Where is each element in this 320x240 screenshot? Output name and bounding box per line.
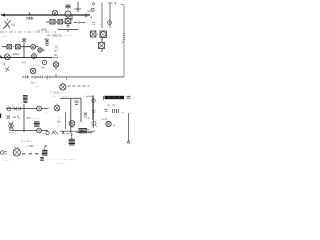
loop coil ticks (122, 34, 125, 44)
svg-text:— —— · —: — —— · — (55, 163, 69, 166)
long wire y77 (52, 76, 124, 78)
phono jack left (0, 151, 7, 155)
label small row (46, 55, 52, 58)
tube V1 grid cap (52, 10, 57, 15)
pilot lamp L1 (69, 121, 75, 127)
svg-text:2·: 2· (88, 116, 91, 120)
tube V4 socket (53, 61, 58, 71)
label left edge (0, 114, 2, 119)
value column 220 (54, 45, 58, 58)
switch row (43, 130, 93, 136)
label 7A8 under bus (26, 17, 34, 21)
svg-text:· · · ·: · · · · (46, 55, 52, 58)
field coil hatched (78, 129, 87, 133)
rung 1 wire (6, 108, 49, 110)
svg-text:·– ·: ·– · (45, 111, 49, 114)
socket marks on column (92, 99, 97, 127)
wire rung y47 (1, 44, 31, 47)
plug P1 (106, 121, 116, 127)
dashed wire bottom (22, 153, 45, 155)
capacitor C11 (99, 38, 105, 53)
speaker box (102, 3, 113, 29)
output transformer left wire (70, 98, 72, 133)
grid resistor zigzag (13, 54, 19, 55)
svg-text:·–2·4(··: ·–2·4(·· (100, 117, 109, 121)
marks left of V6 (45, 111, 49, 114)
svg-text:14: 14 (11, 23, 15, 27)
value label 140 (11, 23, 15, 27)
B+ lead wire (127, 113, 130, 143)
capacitor C1 trimmer with arrow (3, 20, 11, 30)
osc coil starburst (22, 38, 26, 44)
svg-text:·—·: ·—· (2, 34, 7, 38)
svg-text:·· · ·· · · ·· · ·· — ·· —··–: ·· · ·· · · ·· · ·· — ·· —··– (46, 158, 76, 162)
svg-text:·4·5: ·4·5 (21, 61, 26, 65)
electrolytic C14 text (57, 115, 62, 128)
capacitor C4 (13, 45, 21, 49)
output transformer right wire (80, 98, 82, 122)
hatched resistor block (34, 122, 40, 126)
voice coil cluster (84, 113, 90, 121)
output label bold bar (104, 96, 125, 100)
label left A (2, 34, 7, 38)
capacitor C10 (100, 31, 107, 38)
row2 marks (7, 116, 41, 121)
svg-text:5C: 5C (54, 53, 58, 57)
text tone control (50, 91, 66, 99)
wire segment AVC y22.5 (74, 21, 86, 24)
electrolytic C8 (42, 60, 47, 69)
speaker frame right (86, 96, 93, 121)
rectifier column wire (93, 96, 95, 129)
ladder wire x24 (23, 104, 25, 132)
text row (100, 117, 109, 121)
svg-text:4?K· ·–· ·—: 4?K· ·–· ·— (26, 116, 40, 120)
trimmer C12 (30, 68, 35, 74)
svg-text:··: ·· (131, 142, 133, 145)
lamp starburst (65, 4, 71, 10)
dashed wire right of tube (68, 85, 90, 87)
wire row under bus (46, 21, 65, 23)
svg-text:—–: —– (35, 85, 40, 89)
phono motor M1 (13, 147, 20, 157)
svg-text:·—·: ·—· (69, 135, 73, 138)
rung 2 wire (10, 130, 48, 132)
antenna lead wire (121, 4, 124, 77)
text rows above bottom row (21, 140, 35, 149)
text AC-DC 117V (107, 104, 119, 108)
resistor R1 (58, 20, 63, 25)
svg-text:–·+·5Ω·: –·+·5Ω· (25, 144, 34, 148)
label 45 under bus (21, 61, 26, 65)
label under (69, 135, 73, 138)
AVC label marks (85, 3, 96, 25)
tube V2 socket circle (65, 11, 71, 17)
svg-text:4μ+: 4μ+ (57, 120, 62, 124)
fuse block (42, 145, 47, 155)
rectifier boxes right: C9 (91, 31, 99, 37)
filter choke core top (23, 96, 28, 103)
svg-text:Ω?: Ω? (54, 49, 58, 53)
coupling caps row y77 (22, 76, 52, 79)
svg-text:·.: ·. (127, 3, 129, 6)
equals marks right of bar (127, 96, 135, 100)
svg-text:4? ·455 KC· —· ·–·: 4? ·455 KC· —· ·–· (47, 34, 73, 38)
resistor R4 circle (37, 128, 42, 133)
svg-text:··–: ··– (121, 110, 125, 114)
svg-text:— 4?5: — 4?5 (37, 28, 47, 32)
IF transformer T1 (65, 17, 71, 27)
capacitor C2 (50, 20, 55, 25)
svg-text:+: + (97, 33, 99, 37)
tube V6 output (54, 104, 60, 111)
capacitor C15 plates (75, 101, 79, 104)
trimmer C6 (32, 54, 37, 59)
tube V3 triode (1, 54, 11, 60)
svg-text:4?· ?C–··: 4?· ?C–·· (107, 104, 119, 108)
label 50L6 row (127, 3, 129, 6)
text above tube (31, 81, 40, 89)
wire stub at x72 (71, 15, 73, 20)
trimmer C5 (31, 44, 39, 49)
dot top right (115, 3, 116, 4)
bottom wire y131 (60, 130, 95, 132)
caption text (2, 158, 76, 166)
svg-text:=·: =· (58, 125, 61, 128)
dash-dot divider (0, 31, 56, 33)
wire vertical ladder x24 (23, 43, 25, 58)
jack circle (108, 21, 112, 25)
svg-text:3A: 3A (87, 10, 91, 14)
wire top of output section (60, 96, 81, 99)
svg-text:·5·: ·5· (11, 104, 14, 108)
svg-text:·· ·—··: ·· ·—·· (2, 158, 10, 162)
svg-text:—··· ·': —··· ·' (52, 95, 60, 99)
wire bus y57.5 (0, 57, 58, 59)
cap C13 symbols on rung1 (7, 104, 21, 112)
resistor R2 circle (37, 106, 42, 111)
resistor R3 diagonal (9, 122, 14, 134)
electrolytic C14 lead wire (65, 112, 67, 129)
svg-text:··: ·· (10, 65, 12, 68)
svg-text:7A8·: 7A8· (26, 17, 34, 21)
svg-text:?··–··?·—·: ?··–··?·—· (21, 140, 34, 144)
starburst 2 (45, 39, 49, 46)
node tick at x29 on bus (29, 13, 31, 16)
svg-text:—·—·: —·—· (62, 96, 69, 99)
text 455 value (37, 28, 47, 32)
tube V5 triode mid (60, 83, 66, 91)
battery plates (105, 109, 125, 114)
wire: main B+ bus with left arrow (1, 13, 90, 16)
brace label IF (58, 30, 78, 33)
trimmer C7 (38, 48, 45, 52)
power transformer core (69, 133, 75, 145)
label row IF 455KC (44, 34, 73, 41)
svg-text:)·: )· (58, 115, 60, 119)
padder caps row: C3 (7, 45, 12, 49)
label near arrow (131, 142, 133, 145)
volume pot arrow (4, 63, 11, 72)
bracket top right (75, 2, 82, 13)
junction ticks on y77 (47, 74, 67, 80)
